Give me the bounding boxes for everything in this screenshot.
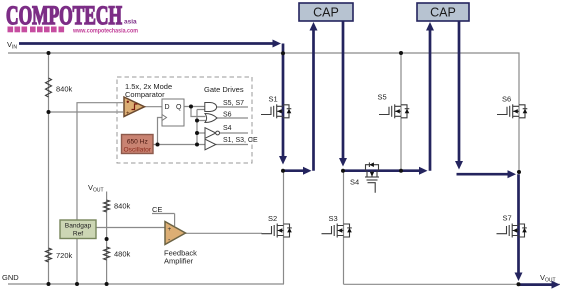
svg-text:S4: S4 (350, 178, 359, 187)
wire GND rail (8, 283, 284, 285)
wire left divider column (48, 53, 50, 284)
capacitor CAP2 box (417, 3, 469, 21)
svg-text:Gate Drives: Gate Drives (204, 85, 244, 94)
svg-text:D: D (165, 104, 170, 111)
flip-flop U2 (162, 99, 184, 126)
wire VOUT output navy (519, 283, 553, 286)
wire CAP1 right drop navy (342, 21, 345, 158)
wire S3 column (343, 172, 345, 284)
svg-text:S6: S6 (223, 112, 232, 119)
svg-text:S1: S1 (269, 95, 278, 104)
wire CE input (152, 214, 175, 227)
wire buffer output S1 S3 CE (216, 144, 248, 146)
svg-text:480k: 480k (114, 250, 131, 259)
svg-text:Q: Q (176, 104, 182, 111)
svg-text:+: + (126, 111, 130, 117)
svg-text:CE: CE (152, 205, 162, 214)
oscillator 650 Hz (122, 135, 154, 154)
svg-text:IN: IN (12, 45, 17, 51)
wire CAP2 right drop navy (458, 21, 461, 161)
wire feedback amp output to S2 gate (185, 232, 262, 234)
wire S5 column (400, 53, 402, 171)
transistor S1 (261, 95, 291, 119)
wire VOUT sense column (106, 192, 108, 285)
svg-text:CAP: CAP (313, 6, 339, 20)
transistor S3 (322, 214, 352, 238)
wire oscillator output (153, 144, 205, 146)
wire S1 branch navy down (282, 44, 285, 157)
wire VOUT bottom rail (344, 283, 561, 285)
svg-text:S5: S5 (378, 93, 387, 102)
buffer S4 drive (205, 128, 216, 139)
svg-text:Oscillator: Oscillator (124, 147, 152, 154)
svg-text:COMPOTECH: COMPOTECH (6, 1, 122, 30)
svg-text:OUT: OUT (545, 278, 556, 284)
transistor S7 (497, 214, 527, 238)
svg-text:CAP: CAP (430, 6, 456, 20)
wire comparator plus input from bandgap (77, 103, 123, 220)
svg-text:S5, S7: S5, S7 (223, 100, 244, 107)
AND gate S5 S7 drive (205, 103, 217, 112)
wire CAP1 left riser navy (312, 30, 315, 171)
wire S7 column navy down (517, 174, 520, 273)
wire node1 to CAP1 navy (283, 169, 304, 172)
wire bandgap to ground (76, 239, 78, 285)
svg-text:asia: asia (124, 19, 137, 26)
svg-text:+: + (168, 226, 172, 233)
resistor 480k (104, 247, 110, 260)
svg-text:840k: 840k (56, 85, 73, 94)
node VIN label (7, 40, 17, 51)
svg-text:S1, S3, CE: S1, S3, CE (223, 137, 258, 144)
svg-text:S4: S4 (223, 125, 232, 132)
wire CAP2 left riser navy (429, 30, 432, 171)
wire comparator output to flip-flop D (144, 106, 162, 108)
wire gate-drive bus (197, 110, 206, 145)
buffer S1 S3 CE drive (205, 139, 216, 150)
control block dashed box (117, 77, 252, 163)
wire OR output S6 (217, 117, 248, 119)
svg-text:Comparator: Comparator (125, 90, 165, 99)
transistor S6 (497, 95, 527, 119)
wire flip-flop Q output (184, 106, 205, 108)
svg-text:S7: S7 (503, 214, 512, 223)
wire S2 column (283, 172, 285, 284)
logo tagline (8, 27, 139, 35)
svg-text:S2: S2 (268, 214, 277, 223)
wire to S7 column navy (457, 173, 509, 176)
wire node2 across S4 navy (343, 169, 420, 172)
resistor 840k upper (46, 78, 52, 97)
wire VIN rail navy with arrow (19, 42, 274, 45)
svg-text:650 Hz: 650 Hz (127, 139, 148, 146)
svg-text:Amplifier: Amplifier (164, 257, 194, 266)
node VOUT sense label (88, 183, 104, 194)
transistor S4 (350, 162, 379, 192)
svg-text:840k: 840k (114, 202, 131, 211)
wire comparator minus input (49, 111, 124, 113)
resistor 720k (46, 248, 52, 262)
svg-text:GND: GND (2, 273, 19, 282)
wire VIN rail gray (8, 53, 519, 172)
svg-text:Ref: Ref (73, 231, 83, 238)
wire Q to OR gate (191, 107, 206, 117)
capacitor CAP1 box (299, 3, 353, 21)
svg-text:www.compotechasia.com: www.compotechasia.com (72, 27, 138, 34)
transistor S2 (262, 214, 292, 238)
svg-text:720k: 720k (56, 251, 73, 260)
resistor 840k feedback (104, 200, 110, 212)
svg-text:OUT: OUT (93, 188, 104, 194)
wire bandgap output (96, 227, 165, 229)
svg-text:S3: S3 (329, 214, 338, 223)
OR gate S6 drive (205, 114, 217, 123)
logo COMPOTECH (6, 1, 137, 30)
bandgap reference (60, 220, 96, 239)
node VOUT output label (540, 273, 556, 284)
wire buffer output S4 (220, 132, 248, 134)
op-amp feedback amplifier (164, 222, 197, 266)
op-amp mode comparator (124, 97, 145, 117)
svg-text:S6: S6 (502, 95, 511, 104)
transistor S5 (378, 93, 410, 119)
wire flip-flop clock (158, 118, 163, 145)
svg-text:Bandgap: Bandgap (65, 223, 92, 230)
wire AND output S5 S7 (217, 106, 249, 108)
